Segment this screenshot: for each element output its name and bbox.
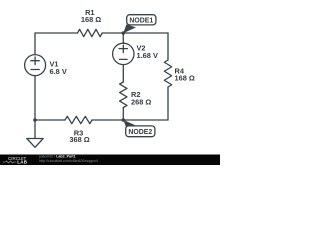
wire top horizontal right of R1 to node A and R4 [102, 32, 168, 34]
NODE1 label box [127, 15, 156, 25]
svg-text:268 Ω: 268 Ω [131, 97, 151, 106]
junction node A dot [122, 31, 126, 35]
svg-text:6.8 V: 6.8 V [50, 67, 67, 76]
ground [27, 139, 43, 148]
NODE2 pointer flag [123, 120, 136, 128]
NODE1 pointer flag [123, 24, 136, 33]
resistor R4 [164, 60, 171, 87]
resistor R2 [120, 82, 127, 108]
svg-text:LAB: LAB [17, 159, 27, 164]
ground stem [34, 120, 36, 139]
footer logo zigzag [3, 161, 16, 163]
svg-text:NODE2: NODE2 [128, 129, 152, 136]
svg-text:168 Ω: 168 Ω [175, 74, 195, 83]
wire V2 to R2 [122, 65, 124, 83]
svg-text:http://circuitlab.com/c6kn626x: http://circuitlab.com/c6kn626xsqgvu4 [39, 159, 98, 163]
resistor R1 [78, 29, 103, 36]
wire bottom right of R3 to node B and R4 [92, 119, 168, 121]
wire R2 to node B [122, 108, 124, 121]
wire top horizontal left of R1 [35, 32, 78, 34]
voltage source V2 [113, 43, 134, 64]
junction node B dot [122, 118, 126, 122]
junction ground-rail dot [33, 118, 37, 122]
NODE2 label box [126, 126, 155, 137]
svg-text:NODE1: NODE1 [129, 17, 153, 24]
svg-text:368 Ω: 368 Ω [69, 135, 89, 144]
wire bottom left of R3 [35, 119, 65, 121]
footer bar [0, 155, 220, 166]
wire right vertical above R4 [167, 33, 169, 60]
svg-text:168 Ω: 168 Ω [81, 15, 101, 24]
resistor R3 [65, 116, 92, 123]
svg-text:1.68 V: 1.68 V [137, 51, 158, 60]
wire top-left vertical [34, 33, 36, 55]
wire right vertical below R4 [167, 87, 169, 120]
wire node A down to V2 [122, 33, 124, 43]
voltage source V1 [25, 55, 46, 76]
wire V1 down to bottom rail [34, 76, 36, 121]
